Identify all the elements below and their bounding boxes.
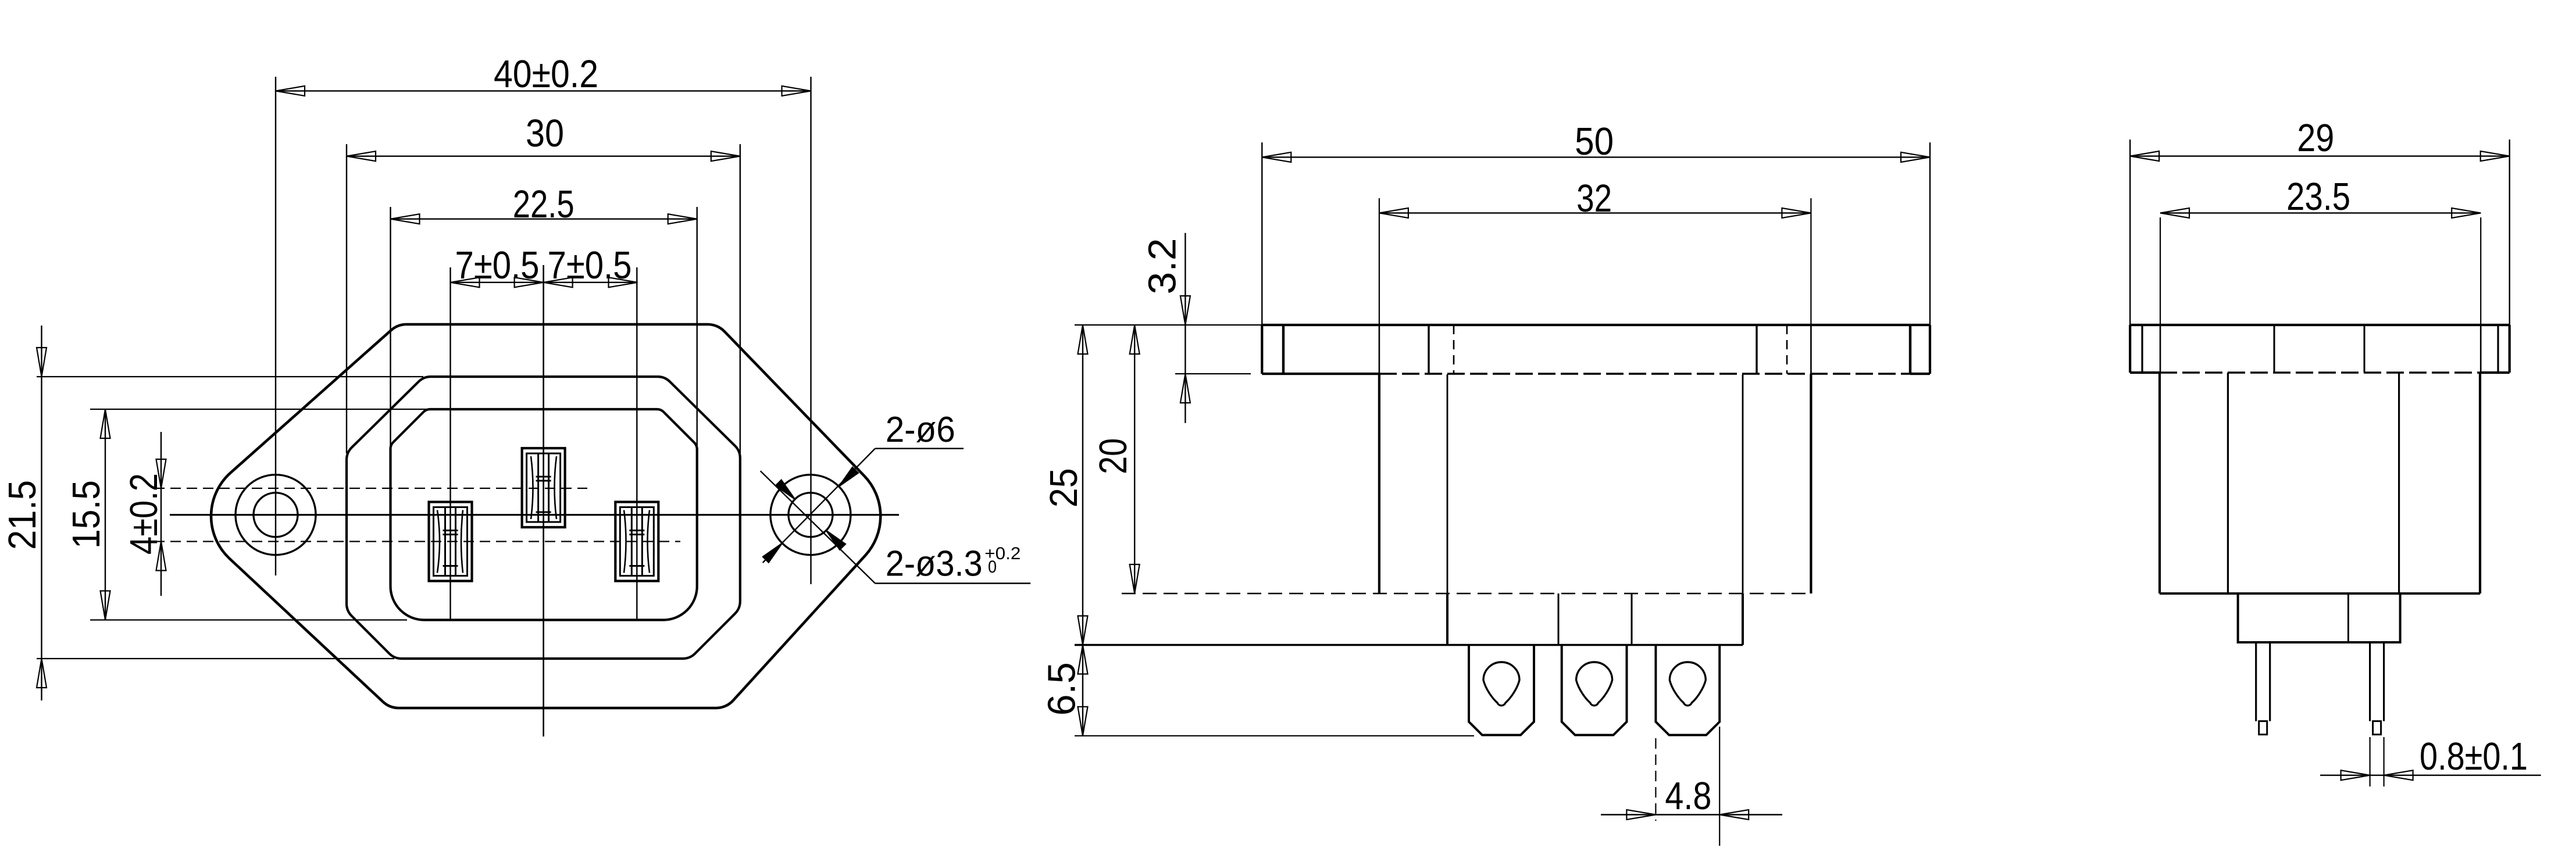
svg-text:6.5: 6.5 xyxy=(1040,662,1084,716)
svg-text:7±0.5: 7±0.5 xyxy=(455,244,540,287)
side pins center dash line xyxy=(154,541,680,542)
inner body front edges xyxy=(1447,374,1448,593)
dimension 7±0.5 left xyxy=(451,282,638,283)
left mounting hole xyxy=(236,475,316,555)
dimension 6.5 (vertical) xyxy=(1082,645,1083,736)
svg-text:50: 50 xyxy=(1575,120,1614,163)
left pin xyxy=(2256,642,2270,721)
22.5 extension lines xyxy=(390,207,391,459)
svg-text:21.5: 21.5 xyxy=(1,480,44,550)
plate inner edges xyxy=(2141,325,2143,373)
body outer sides xyxy=(2158,373,2161,593)
svg-text:22.5: 22.5 xyxy=(513,183,575,226)
dimension 21.5 (vertical) xyxy=(41,326,42,700)
svg-text:4.8: 4.8 xyxy=(1665,774,1711,818)
pin L (left contact) xyxy=(429,502,472,581)
21.5 extension lines xyxy=(37,376,423,377)
right hole vertical center line / 40 ext xyxy=(810,77,811,584)
svg-text:0.8±0.1: 0.8±0.1 xyxy=(2420,735,2528,778)
dimension 7±0.5 right xyxy=(544,277,573,287)
right side view: flange plate xyxy=(2130,324,2510,326)
body inner edges xyxy=(2227,373,2229,593)
label 2-ø6 with leader xyxy=(875,448,964,449)
3.2 bottom reference line xyxy=(1175,373,1251,374)
dimension 23.5 xyxy=(2160,217,2161,325)
6.5 bottom extension line xyxy=(1075,735,1474,736)
socket face outline xyxy=(391,409,697,620)
pin E (earth contact, top middle) xyxy=(522,448,565,527)
lower boss block xyxy=(1446,593,1448,645)
svg-text:0: 0 xyxy=(988,557,997,577)
7 extension / pin center lines xyxy=(449,267,451,621)
dimension 4.8 xyxy=(1655,738,1656,821)
right pin xyxy=(2370,642,2384,721)
svg-text:40±0.2: 40±0.2 xyxy=(494,52,598,96)
body bottom edge + extension xyxy=(1075,644,1743,646)
pin N (right contact) xyxy=(615,502,658,581)
dimension 3.2 (vertical, outside arrows) xyxy=(1184,233,1186,423)
label 2-ø3.3 +0.2/0 with leader xyxy=(875,582,1030,584)
body bottom edge xyxy=(2160,592,2480,595)
dimension 20 (vertical) xyxy=(1134,325,1135,593)
body hidden bottom line xyxy=(1122,593,1811,594)
svg-text:2-ø6: 2-ø6 xyxy=(886,410,955,450)
svg-text:4±0.2: 4±0.2 xyxy=(122,473,166,555)
dimension 40±0.2 xyxy=(276,90,811,91)
dimension 25 (vertical) xyxy=(1082,325,1083,645)
svg-text:29: 29 xyxy=(2297,116,2334,160)
earth pin center dash line xyxy=(154,488,587,489)
horizontal center line xyxy=(170,514,899,516)
terminal 2 with solder hole xyxy=(1562,645,1627,735)
main body sides xyxy=(1378,374,1380,593)
recess wall outline xyxy=(347,377,740,659)
svg-text:20: 20 xyxy=(1091,438,1135,474)
left hole vertical center line / 40 ext xyxy=(275,77,276,575)
svg-text:25: 25 xyxy=(1042,468,1086,507)
dimension 32 xyxy=(1379,198,1380,325)
dimension 4±0.2 (vertical) xyxy=(160,432,162,596)
dimension 29 xyxy=(2129,140,2131,325)
vertical center line xyxy=(543,265,544,736)
dimension 15.5 (vertical) xyxy=(105,409,106,620)
dimension 22.5 xyxy=(391,219,697,220)
side view: flange plate xyxy=(1262,324,1930,326)
dimension 30 xyxy=(347,156,740,157)
top reference line / flange top extension xyxy=(1075,324,1262,326)
right mounting hole xyxy=(770,475,851,555)
lower block xyxy=(2238,593,2400,642)
svg-text:7±0.5: 7±0.5 xyxy=(548,244,632,287)
15.5 extension lines xyxy=(90,409,465,410)
dimension 0.8±0.1 xyxy=(2370,737,2371,786)
dimension 50 xyxy=(1261,142,1262,325)
svg-text:3.2: 3.2 xyxy=(1141,238,1184,295)
flange plate inner edges xyxy=(1282,325,1285,374)
terminal 3 with solder hole xyxy=(1656,645,1719,735)
svg-text:2-ø3.3: 2-ø3.3 xyxy=(886,544,983,584)
terminal 1 with solder hole xyxy=(1469,645,1534,735)
svg-text:15.5: 15.5 xyxy=(65,480,108,549)
outer mounting flange outline (front view) xyxy=(211,324,880,708)
svg-text:32: 32 xyxy=(1576,177,1612,220)
svg-text:30: 30 xyxy=(526,112,564,155)
30 extension lines xyxy=(346,144,347,453)
svg-text:23.5: 23.5 xyxy=(2286,175,2350,219)
